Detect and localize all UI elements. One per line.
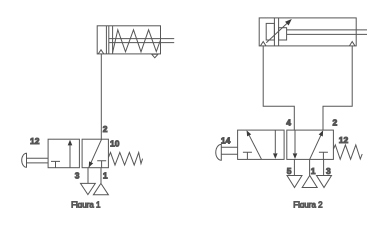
cylinder C2 piston rod bbox=[287, 30, 367, 35]
cylinder C1 port arrow bbox=[98, 50, 104, 54]
valve V2 return spring (12) bbox=[333, 145, 362, 159]
cylinder C1 return spring bbox=[113, 30, 161, 53]
valve V2 exhaust triangle port 5 bbox=[287, 176, 302, 188]
cylinder C2 body (double-acting, cushioned) bbox=[259, 18, 356, 46]
valve V2 supply triangle port 1 bbox=[302, 176, 317, 188]
valve V2 left cell box bbox=[238, 130, 285, 159]
valve V2 right cell flow path 1-2 bbox=[310, 131, 323, 159]
pipe C1 to valve V1 port 2 bbox=[100, 54, 102, 139]
valve V1 exhaust triangle port 3 bbox=[81, 183, 96, 194]
valve V2 left cell blocked port 5 bbox=[243, 152, 252, 159]
valve V2 push button (14) bbox=[216, 144, 222, 160]
svg-text:12: 12 bbox=[30, 136, 40, 146]
valve V2 right cell box bbox=[287, 130, 334, 159]
valve V2 port 5 stub bbox=[293, 159, 295, 175]
valve V1 left cell blocked port bbox=[51, 161, 60, 167]
valve V1 right cell box bbox=[82, 139, 108, 168]
cylinder C1 vent triangle bbox=[152, 54, 158, 58]
valve V2 left cell flow path 1-4 bbox=[247, 131, 261, 159]
valve V2 left cell flow arrow 2-3 bbox=[274, 130, 276, 153]
svg-text:3: 3 bbox=[326, 166, 331, 176]
valve V1 port 1 stub bbox=[100, 168, 102, 184]
cylinder C2 left cushion box bbox=[266, 23, 274, 40]
svg-text:Figura 2: Figura 2 bbox=[293, 201, 323, 208]
cylinder C2 right port arrow bbox=[349, 42, 355, 46]
svg-text:1: 1 bbox=[103, 171, 108, 181]
cylinder C1 body (single-acting) bbox=[97, 26, 160, 54]
valve V1 port 3 stub bbox=[87, 168, 89, 184]
svg-text:5: 5 bbox=[287, 166, 292, 176]
valve V1 left cell flow arrow 1-2 bbox=[69, 145, 71, 168]
svg-text:2: 2 bbox=[103, 124, 108, 134]
valve V2 exhaust triangle port 3 bbox=[317, 176, 332, 188]
svg-text:10: 10 bbox=[110, 138, 120, 148]
valve V2 port 1 stub bbox=[309, 159, 311, 175]
cylinder C1 piston rod bbox=[109, 39, 174, 43]
svg-text:Figura 1: Figura 1 bbox=[71, 201, 101, 208]
valve V1 return spring (10) bbox=[108, 152, 142, 165]
cylinder C2 left port arrow bbox=[260, 42, 266, 46]
svg-text:14: 14 bbox=[221, 136, 231, 146]
valve V2 port 3 stub bbox=[323, 159, 325, 175]
cylinder C2 right cushion box bbox=[279, 28, 287, 40]
valve V2 right cell blocked port 3 bbox=[319, 152, 328, 159]
valve V1 right cell flow path 2-3 bbox=[89, 139, 102, 167]
svg-text:3: 3 bbox=[75, 171, 80, 181]
pipe C2 left port to valve V2 port 4 bbox=[263, 46, 294, 130]
valve V1 supply triangle port 1 bbox=[93, 183, 108, 194]
svg-text:1: 1 bbox=[311, 166, 316, 176]
svg-text:12: 12 bbox=[339, 135, 349, 145]
cylinder C2 cushioning adjust arrow bbox=[266, 20, 290, 43]
valve V1 left cell box bbox=[48, 139, 79, 168]
cylinder C1 piston bbox=[106, 26, 108, 54]
svg-text:4: 4 bbox=[286, 117, 291, 127]
cylinder C2 piston bbox=[274, 18, 278, 46]
pipe C2 right port to valve V2 port 2 bbox=[323, 46, 352, 130]
cylinder C1 spring seat bbox=[112, 26, 114, 54]
valve V2 right cell flow arrow 4-5 bbox=[294, 130, 296, 153]
valve V1 right cell blocked port 1 bbox=[97, 161, 106, 168]
valve V1 push button (12) bbox=[22, 153, 27, 167]
svg-text:2: 2 bbox=[333, 117, 338, 127]
